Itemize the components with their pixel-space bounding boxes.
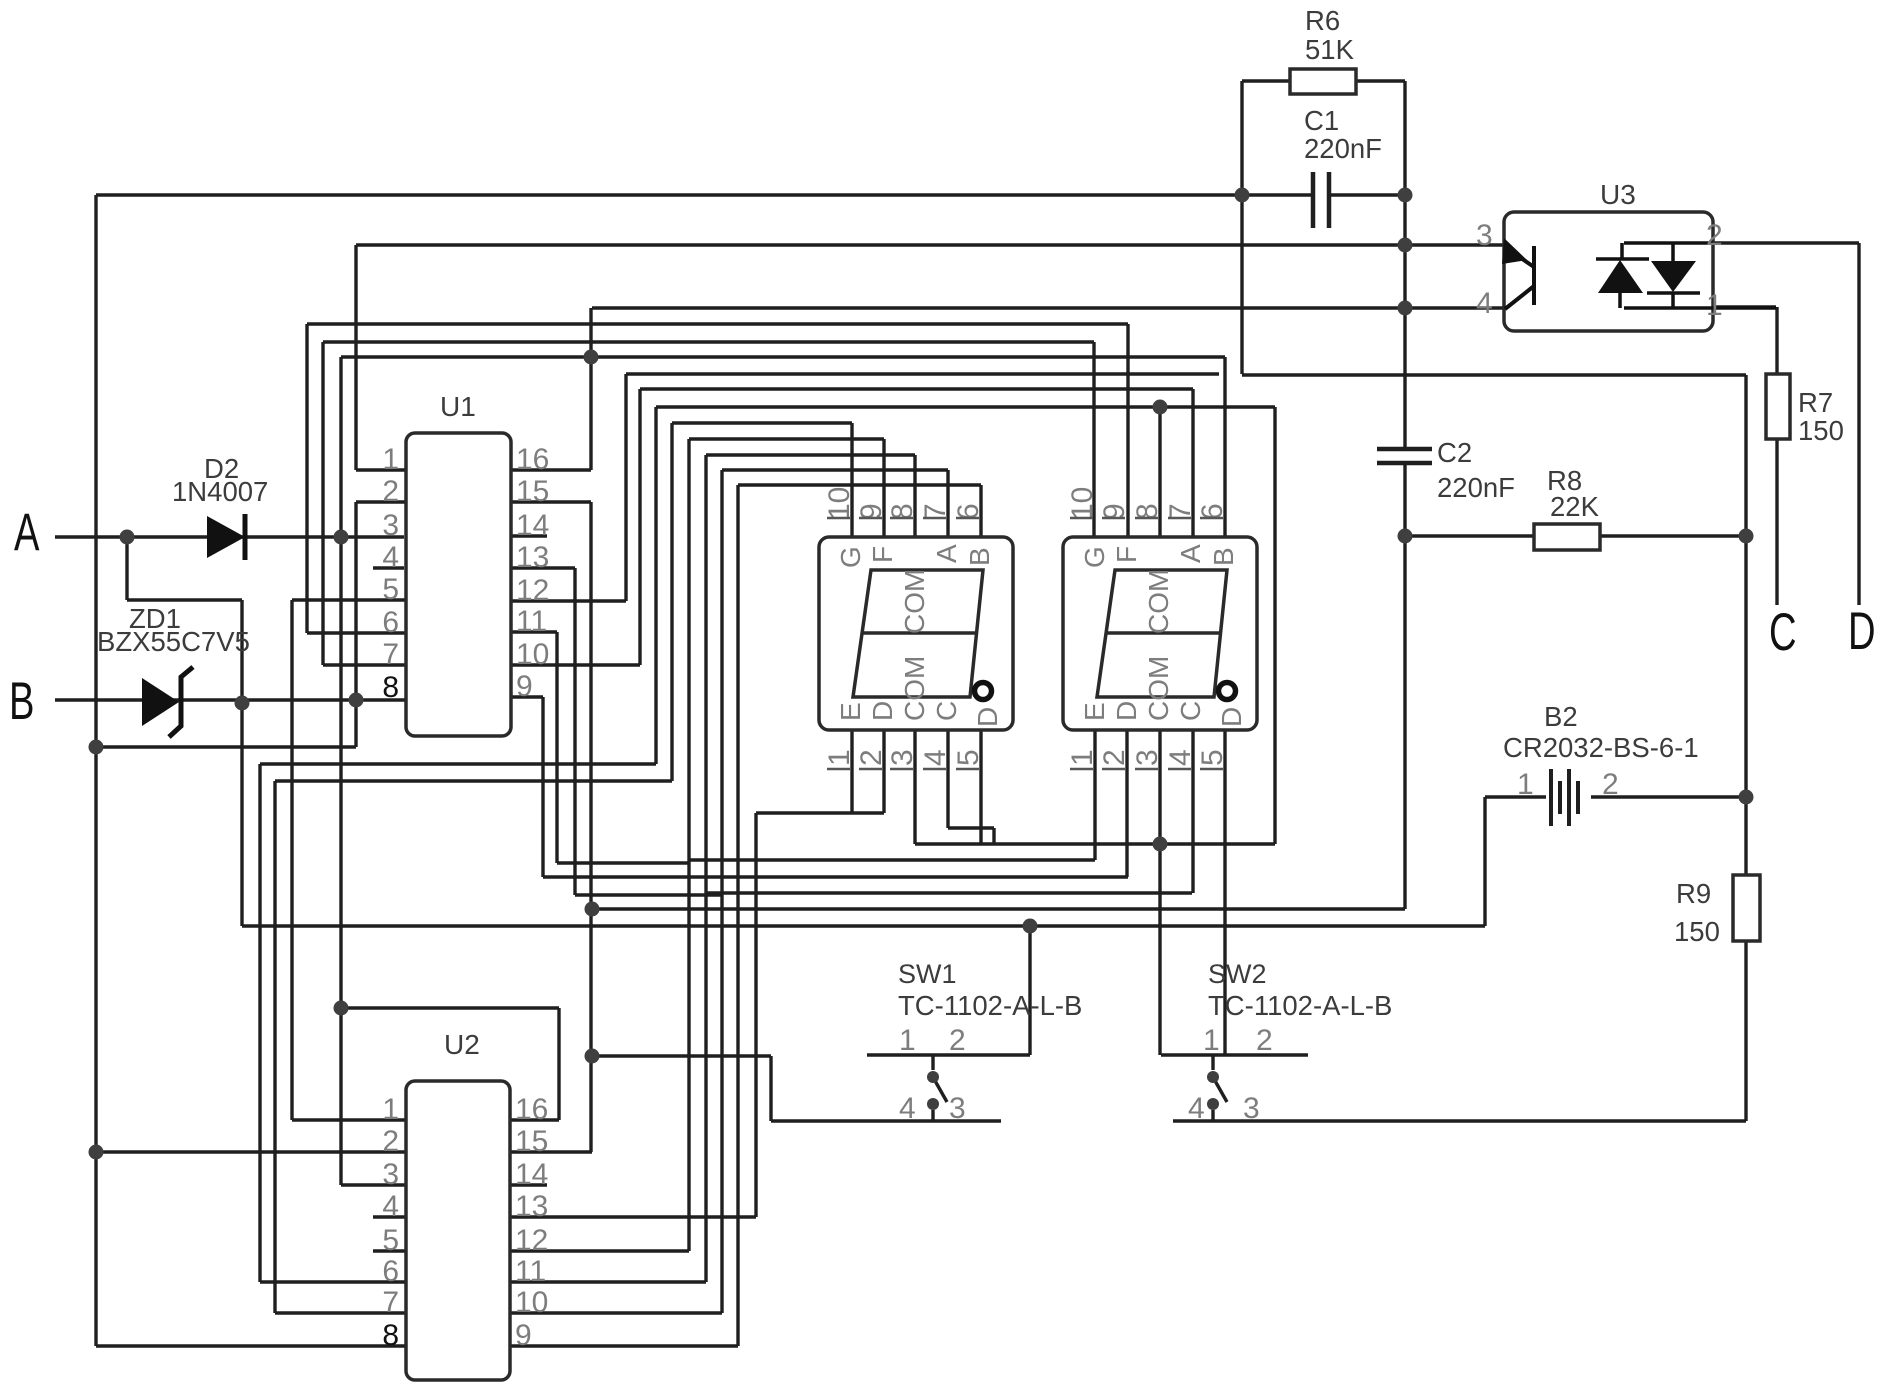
svg-text:G: G	[1079, 546, 1110, 568]
svg-text:10: 10	[1066, 487, 1099, 520]
svg-text:3: 3	[1476, 219, 1493, 252]
svg-text:2: 2	[855, 749, 888, 766]
svg-text:150: 150	[1798, 415, 1844, 446]
svg-text:1: 1	[1203, 1024, 1220, 1057]
svg-text:CR2032-BS-6-1: CR2032-BS-6-1	[1503, 732, 1699, 763]
svg-text:51K: 51K	[1305, 34, 1355, 65]
svg-text:BZX55C7V5: BZX55C7V5	[97, 626, 250, 657]
svg-text:1: 1	[1517, 768, 1534, 801]
svg-text:220nF: 220nF	[1437, 472, 1515, 503]
svg-text:12: 12	[515, 1224, 548, 1257]
svg-text:TC-1102-A-L-B: TC-1102-A-L-B	[1208, 990, 1392, 1021]
svg-text:C: C	[931, 701, 962, 721]
svg-text:8: 8	[382, 671, 399, 704]
svg-text:1N4007: 1N4007	[172, 476, 268, 507]
svg-text:12: 12	[516, 574, 549, 607]
svg-text:2: 2	[949, 1024, 966, 1057]
svg-text:2: 2	[382, 475, 399, 508]
svg-text:11: 11	[516, 605, 547, 638]
svg-text:5: 5	[382, 573, 399, 606]
svg-text:10: 10	[515, 1286, 548, 1319]
svg-text:3: 3	[1131, 749, 1164, 766]
svg-text:1: 1	[1066, 749, 1099, 766]
svg-text:22K: 22K	[1550, 491, 1600, 522]
svg-text:7: 7	[382, 638, 399, 671]
svg-text:SW2: SW2	[1208, 959, 1267, 989]
svg-text:4: 4	[919, 749, 952, 766]
svg-text:COM: COM	[1143, 569, 1174, 634]
svg-text:4: 4	[382, 1190, 399, 1223]
svg-text:220nF: 220nF	[1304, 133, 1382, 164]
svg-text:2: 2	[1706, 219, 1723, 252]
svg-text:C1: C1	[1304, 105, 1339, 136]
svg-text:A: A	[1175, 544, 1206, 563]
svg-text:9: 9	[515, 1319, 532, 1352]
svg-text:5: 5	[952, 749, 985, 766]
svg-text:10: 10	[823, 487, 856, 520]
svg-text:3: 3	[886, 749, 919, 766]
svg-text:B2: B2	[1544, 701, 1578, 732]
svg-text:COM: COM	[899, 656, 930, 721]
svg-text:3: 3	[382, 509, 399, 542]
svg-text:E: E	[1079, 702, 1110, 721]
svg-text:2: 2	[1098, 749, 1131, 766]
svg-text:1: 1	[382, 1093, 399, 1126]
svg-text:14: 14	[516, 509, 549, 542]
svg-text:D: D	[1111, 701, 1142, 721]
svg-text:A: A	[931, 544, 962, 563]
svg-text:R6: R6	[1305, 5, 1340, 36]
svg-text:C: C	[1175, 701, 1206, 721]
svg-text:U3: U3	[1600, 179, 1636, 210]
svg-text:B: B	[1208, 547, 1239, 566]
svg-text:COM: COM	[899, 569, 930, 634]
svg-text:1: 1	[382, 443, 399, 476]
svg-text:C2: C2	[1437, 437, 1472, 468]
svg-text:4: 4	[382, 541, 399, 574]
svg-text:4: 4	[1476, 287, 1493, 320]
svg-text:11: 11	[515, 1255, 546, 1288]
svg-text:U2: U2	[444, 1029, 480, 1060]
svg-text:8: 8	[382, 1319, 399, 1352]
svg-text:A: A	[14, 502, 40, 562]
svg-text:3: 3	[949, 1092, 966, 1125]
svg-text:150: 150	[1674, 916, 1720, 947]
svg-text:2: 2	[1256, 1024, 1273, 1057]
svg-text:16: 16	[516, 443, 549, 476]
svg-text:4: 4	[899, 1092, 916, 1125]
svg-text:10: 10	[516, 638, 549, 671]
svg-text:4: 4	[1164, 749, 1197, 766]
svg-text:2: 2	[382, 1125, 399, 1158]
svg-text:D: D	[1216, 707, 1247, 727]
svg-text:D: D	[972, 707, 1003, 727]
svg-text:COM: COM	[1143, 656, 1174, 721]
svg-text:SW1: SW1	[898, 959, 957, 989]
svg-text:13: 13	[515, 1190, 548, 1223]
svg-text:TC-1102-A-L-B: TC-1102-A-L-B	[898, 990, 1082, 1021]
svg-text:G: G	[835, 546, 866, 568]
svg-text:3: 3	[382, 1158, 399, 1191]
svg-text:15: 15	[515, 1125, 548, 1158]
svg-text:6: 6	[382, 606, 399, 639]
svg-text:2: 2	[1602, 768, 1619, 801]
svg-text:5: 5	[382, 1224, 399, 1257]
svg-text:1: 1	[823, 749, 856, 766]
svg-text:13: 13	[516, 541, 549, 574]
svg-text:C: C	[1769, 602, 1797, 662]
svg-text:7: 7	[382, 1286, 399, 1319]
svg-text:D: D	[867, 701, 898, 721]
svg-text:F: F	[867, 546, 898, 563]
svg-text:1: 1	[1706, 289, 1723, 322]
svg-text:1: 1	[899, 1024, 916, 1057]
svg-text:5: 5	[1196, 749, 1229, 766]
svg-text:3: 3	[1243, 1092, 1260, 1125]
svg-text:F: F	[1111, 546, 1142, 563]
svg-text:D: D	[1848, 601, 1876, 661]
svg-text:9: 9	[516, 670, 533, 703]
svg-text:U1: U1	[440, 391, 476, 422]
svg-text:B: B	[9, 671, 34, 731]
svg-text:E: E	[835, 702, 866, 721]
svg-text:6: 6	[382, 1255, 399, 1288]
svg-text:16: 16	[515, 1093, 548, 1126]
svg-text:B: B	[964, 547, 995, 566]
svg-text:R7: R7	[1798, 387, 1833, 418]
svg-text:R9: R9	[1676, 878, 1711, 909]
svg-text:14: 14	[515, 1158, 548, 1191]
svg-text:15: 15	[516, 475, 549, 508]
svg-text:4: 4	[1188, 1092, 1205, 1125]
